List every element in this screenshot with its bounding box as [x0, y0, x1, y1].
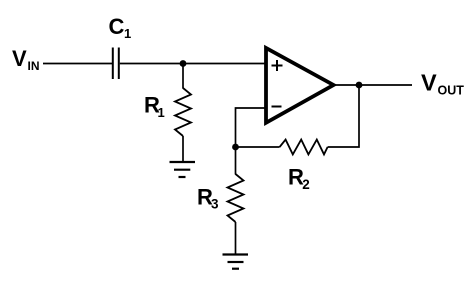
resistor R2 — [280, 140, 328, 155]
wire node A to op-amp + input — [183, 63, 265, 65]
svg-text:2: 2 — [302, 177, 310, 192]
svg-text:3: 3 — [211, 197, 219, 212]
svg-text:V: V — [421, 69, 437, 95]
svg-text:OUT: OUT — [438, 84, 465, 98]
svg-text:C: C — [109, 14, 125, 39]
resistor R1 — [175, 88, 191, 136]
wire op-amp output to node C — [334, 84, 359, 86]
op-amp U1 — [266, 48, 334, 123]
node B junction — [232, 144, 239, 151]
ground (below R3) — [223, 255, 249, 269]
net label VOUT — [421, 69, 464, 97]
node A junction — [180, 60, 187, 67]
wire VIN to C1 — [43, 63, 112, 65]
node C junction — [356, 82, 363, 89]
label C1 — [109, 14, 132, 41]
wire C1 to node A — [120, 63, 183, 65]
wire node C to VOUT — [359, 84, 412, 86]
svg-text:1: 1 — [124, 26, 131, 41]
resistor R3 — [228, 174, 244, 222]
label R2 — [288, 165, 310, 192]
svg-text:IN: IN — [28, 59, 40, 73]
wire R2 up to node C — [328, 85, 359, 147]
capacitor C1 — [113, 48, 119, 80]
wire op-amp minus input to node B — [236, 108, 267, 147]
label R1 — [144, 93, 165, 121]
wire node B down to R3 — [235, 147, 237, 175]
svg-text:1: 1 — [158, 105, 165, 120]
wire R3 to ground — [235, 222, 237, 255]
ground (below R1) — [170, 162, 196, 177]
wire node B to R2 — [236, 146, 280, 148]
wire node A down to R1 — [182, 64, 184, 89]
svg-text:V: V — [12, 46, 27, 71]
net label VIN — [12, 46, 40, 73]
wire R1 to ground — [182, 136, 184, 162]
label R3 — [197, 185, 219, 212]
